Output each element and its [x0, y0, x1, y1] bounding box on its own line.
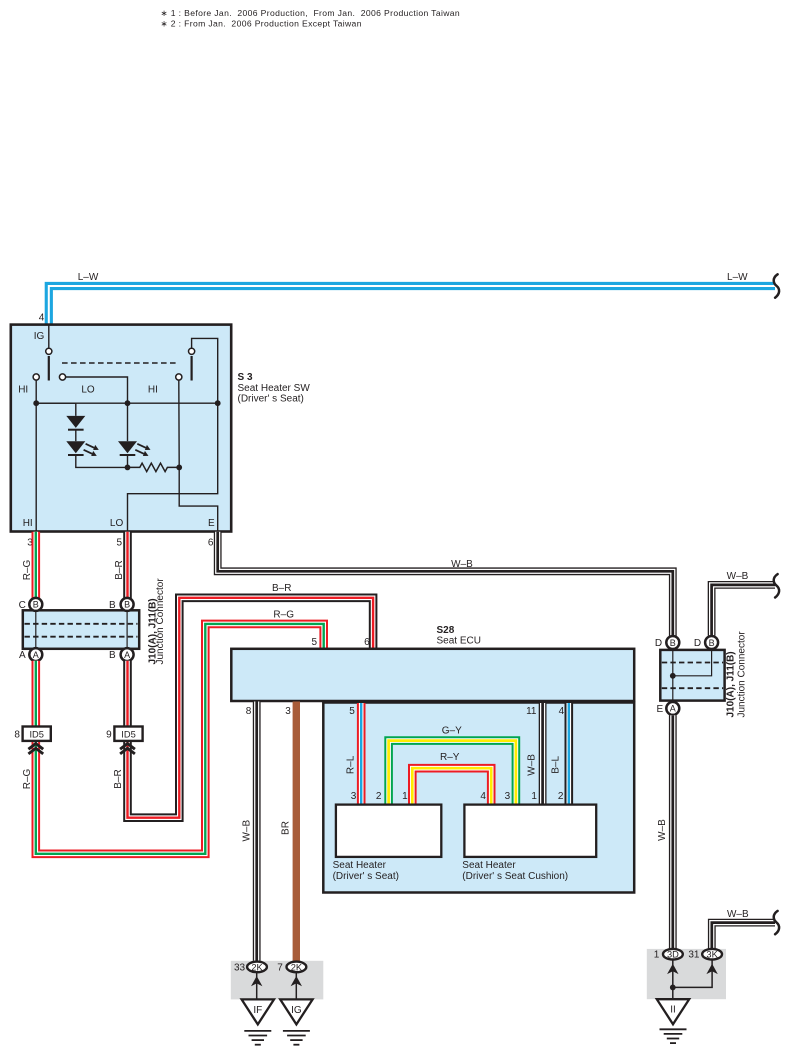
svg-text:6: 6: [208, 537, 214, 548]
svg-text:ID5: ID5: [29, 730, 43, 740]
svg-text:L–W: L–W: [727, 272, 748, 283]
resistor R: [128, 463, 180, 471]
svg-text:D: D: [655, 638, 662, 649]
svg-text:W–B: W–B: [727, 571, 749, 582]
svg-text:B: B: [109, 650, 116, 661]
svg-text:2: 2: [376, 791, 382, 802]
svg-text:1: 1: [531, 791, 537, 802]
ground triangle IG: [280, 999, 312, 1024]
ground triangle IF: [242, 999, 274, 1024]
ground triangle II: [657, 999, 689, 1024]
node ground join: [670, 985, 676, 991]
svg-text:3: 3: [285, 706, 291, 717]
wire 3K jumper: [674, 960, 712, 988]
wire B-L: [564, 703, 573, 805]
wire R-G loop: [36, 624, 324, 854]
wire R-Y: [412, 768, 491, 804]
wire bus to LED1: [36, 403, 76, 416]
svg-text:LO: LO: [81, 385, 95, 396]
wire IF lead: [256, 972, 258, 999]
pin circle B right-2: [705, 636, 718, 649]
svg-text:B: B: [670, 638, 676, 648]
ground symbol IF: [244, 1030, 271, 1032]
svg-text:31: 31: [688, 950, 700, 961]
svg-text:B–L: B–L: [551, 756, 562, 774]
svg-text:C: C: [19, 600, 26, 611]
svg-text:J10(A), J11(B): J10(A), J11(B): [726, 651, 737, 717]
svg-text:2K: 2K: [291, 962, 303, 972]
svg-text:Seat Heater SW: Seat Heater SW: [238, 383, 311, 394]
svg-text:3K: 3K: [706, 950, 718, 960]
svg-text:1: 1: [402, 791, 408, 802]
wire HI-mid contact through resistor node: [179, 380, 218, 531]
wire D3 to cathode rail: [127, 455, 129, 467]
svg-text:B–R: B–R: [272, 583, 291, 594]
wire bus to LED3: [127, 403, 129, 441]
chevrons pin 8: [28, 744, 43, 750]
wire W-B pin8: [253, 702, 261, 962]
svg-text:3: 3: [351, 791, 357, 802]
continuation curve W-B top: [774, 574, 779, 597]
contact HI left: [33, 374, 39, 380]
svg-text:B–R: B–R: [114, 560, 125, 579]
connector dashed row 2 right: [662, 687, 723, 689]
wire B-R loop: [128, 598, 374, 818]
connector dashed row 1 right: [662, 662, 723, 664]
wire LO contact to LED bus: [66, 377, 128, 403]
wire B-R pin5: [123, 532, 132, 599]
wire HI-left contact to bus: [35, 380, 37, 403]
svg-text:A: A: [124, 650, 130, 660]
connector dashed row 1: [25, 623, 138, 625]
wire D2 to cathode rail: [76, 455, 128, 467]
node bus-mid: [125, 400, 131, 406]
seat heater left box: [336, 805, 441, 857]
wire R-L: [357, 703, 366, 805]
svg-text:B: B: [124, 600, 130, 610]
pin circle B right-1: [666, 636, 679, 649]
wire D1 to D2: [75, 430, 77, 441]
connector ID5 pin 9: [114, 727, 142, 741]
svg-text:G–Y: G–Y: [442, 725, 462, 736]
connector internal jumper: [674, 650, 712, 676]
svg-text:B: B: [709, 638, 715, 648]
svg-text:S 3: S 3: [238, 372, 253, 383]
wire W-B pin6: [218, 532, 673, 637]
contact HI mid: [176, 374, 182, 380]
junction connector J10/J11 left box: [23, 610, 139, 649]
svg-text:W–B: W–B: [727, 909, 749, 920]
contact switch 2: [189, 348, 195, 354]
svg-text:5: 5: [117, 537, 123, 548]
continuation curve L-W: [774, 274, 779, 297]
arrow 2K-33: [251, 976, 262, 986]
wire BR: [293, 702, 300, 962]
wire 3D to ground: [672, 960, 674, 1000]
continuation curve W-B bottom: [774, 911, 779, 934]
ground symbol II: [660, 1028, 687, 1030]
svg-text:B: B: [109, 600, 116, 611]
svg-text:R–G: R–G: [273, 610, 294, 621]
svg-text:B: B: [33, 600, 39, 610]
seat heater right box: [464, 805, 596, 857]
arrow 3D: [667, 964, 678, 974]
svg-text:5: 5: [349, 706, 355, 717]
svg-text:W–B: W–B: [657, 819, 668, 841]
ECU S28 box: [231, 649, 634, 701]
pin circle B top-left: [29, 598, 42, 611]
svg-text:8: 8: [14, 730, 20, 741]
svg-text:IF: IF: [253, 1005, 262, 1016]
arrow 2K-7: [291, 976, 302, 986]
pin circle A right: [666, 702, 679, 715]
svg-text:Junction Connector: Junction Connector: [155, 578, 166, 665]
svg-text:HI: HI: [18, 385, 28, 396]
pin circle A bottom-right: [121, 648, 134, 661]
svg-text:33: 33: [234, 962, 246, 973]
svg-text:Seat Heater: Seat Heater: [333, 860, 387, 871]
svg-text:2K: 2K: [251, 962, 263, 972]
connector 3K: [702, 949, 722, 960]
svg-text:3D: 3D: [667, 950, 679, 960]
wire LO branch to pin 5: [128, 403, 218, 531]
svg-text:B–R: B–R: [113, 769, 124, 788]
svg-text:A: A: [670, 704, 676, 714]
pin circle B top-right: [121, 598, 134, 611]
wire L-W: [49, 286, 775, 325]
svg-text:R–G: R–G: [22, 559, 33, 580]
wire R-G pin3: [31, 532, 40, 599]
internal node: [670, 673, 676, 679]
svg-text:R–G: R–G: [22, 768, 33, 789]
svg-text:E: E: [656, 704, 663, 715]
seat assembly box: [323, 703, 634, 893]
svg-text:E: E: [208, 518, 215, 529]
svg-text:R–L: R–L: [345, 755, 356, 774]
switch blade IG: [48, 356, 50, 381]
junction connector right box: [660, 650, 724, 701]
svg-text:ID5: ID5: [121, 730, 135, 740]
connector internal wire C-A: [35, 610, 37, 649]
node cathode rail: [125, 465, 131, 471]
svg-text:1: 1: [654, 950, 660, 961]
svg-text:R–Y: R–Y: [440, 752, 460, 763]
svg-text:Junction Connector: Junction Connector: [737, 631, 748, 718]
connector 2K pin7: [287, 962, 307, 973]
wire IG pin lead: [48, 325, 50, 348]
svg-text:9: 9: [106, 730, 112, 741]
LED D3: [118, 441, 137, 453]
node resistor right: [176, 465, 182, 471]
svg-text:4: 4: [559, 706, 565, 717]
connector ID5 pin 8: [23, 727, 51, 741]
svg-text:II: II: [670, 1005, 676, 1016]
ground shield box right: [647, 949, 726, 999]
ground symbol IG: [283, 1030, 310, 1032]
ganged switch dashed line: [62, 362, 178, 364]
wire W-B right down: [669, 715, 677, 949]
LED D2: [66, 441, 85, 453]
svg-text:∗ 2 : From Jan. 2006 Producti: ∗ 2 : From Jan. 2006 Production Except T…: [161, 19, 362, 29]
connector 3D: [663, 949, 683, 960]
connector 2K pin33: [247, 962, 267, 973]
contact IG: [46, 348, 52, 354]
svg-text:6: 6: [364, 637, 370, 648]
wire IG lead: [295, 972, 297, 999]
contact LO: [59, 374, 65, 380]
wire switch2 to bus: [192, 338, 218, 403]
svg-text:W–B: W–B: [527, 754, 538, 776]
switch blade 2: [191, 356, 193, 381]
svg-text:3: 3: [505, 791, 511, 802]
wire W-B bottom right: [712, 923, 775, 949]
wire W-B heater: [539, 703, 547, 805]
wire HI branch down to pin 3: [35, 403, 37, 531]
svg-text:S28: S28: [437, 625, 455, 636]
svg-text:L–W: L–W: [78, 272, 99, 283]
svg-text:W–B: W–B: [241, 820, 252, 842]
svg-text:IG: IG: [291, 1005, 302, 1016]
node bus-right: [215, 400, 221, 406]
svg-text:Seat ECU: Seat ECU: [437, 635, 481, 646]
svg-text:5: 5: [312, 637, 318, 648]
connector internal wire B-B: [126, 610, 128, 649]
svg-text:HI: HI: [148, 385, 158, 396]
ground shield box left: [231, 961, 323, 1000]
svg-text:LO: LO: [110, 518, 124, 529]
svg-text:2: 2: [558, 791, 564, 802]
svg-text:4: 4: [480, 791, 486, 802]
connector dashed row 2: [25, 636, 138, 638]
svg-text:∗ 1 : Before Jan. 2006 Produc: ∗ 1 : Before Jan. 2006 Production, From …: [161, 8, 461, 18]
wire W-B to J10 right: [712, 585, 775, 636]
arrow 3K: [706, 964, 717, 974]
svg-text:7: 7: [277, 962, 283, 973]
svg-text:Seat Heater: Seat Heater: [462, 860, 516, 871]
svg-text:BR: BR: [281, 821, 292, 835]
svg-text:8: 8: [246, 706, 252, 717]
LED D1: [66, 416, 85, 428]
node bus-left: [33, 400, 39, 406]
svg-text:4: 4: [39, 312, 45, 323]
chevrons pin 9: [120, 744, 135, 750]
pin circle A bottom-left: [29, 648, 42, 661]
svg-text:(Driver' s Seat): (Driver' s Seat): [333, 871, 399, 882]
svg-text:W–B: W–B: [451, 559, 473, 570]
bus line: [36, 402, 218, 404]
svg-text:A: A: [19, 650, 26, 661]
svg-text:D: D: [694, 638, 701, 649]
svg-text:(Driver' s Seat): (Driver' s Seat): [238, 394, 304, 405]
svg-text:(Driver' s Seat Cushion): (Driver' s Seat Cushion): [462, 871, 568, 882]
wire G-Y: [389, 741, 516, 805]
svg-text:HI: HI: [23, 518, 33, 529]
svg-text:11: 11: [526, 706, 537, 717]
svg-text:IG: IG: [34, 331, 45, 342]
connector internal wire D-E: [672, 650, 674, 701]
svg-text:A: A: [33, 650, 39, 660]
switch S3 box: [11, 325, 231, 532]
